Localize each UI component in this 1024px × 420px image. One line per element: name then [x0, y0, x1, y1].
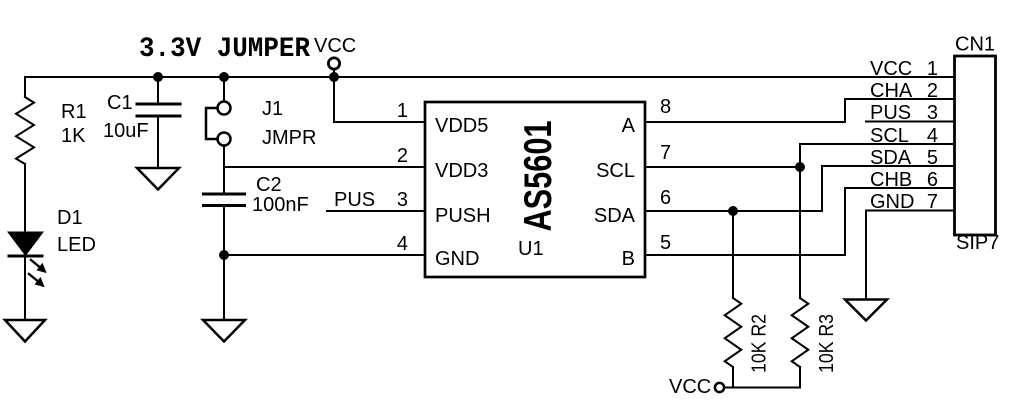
svg-text:4: 4	[927, 125, 938, 147]
capacitor C1	[137, 104, 180, 116]
wire C1 to ground	[157, 118, 159, 169]
svg-text:VDD5: VDD5	[435, 115, 488, 137]
svg-text:1K: 1K	[61, 125, 86, 147]
svg-text:JMPR: JMPR	[262, 127, 316, 149]
svg-text:SDA: SDA	[870, 147, 912, 169]
svg-text:GND: GND	[870, 191, 914, 213]
svg-text:PUSH: PUSH	[435, 205, 491, 227]
wire VDD3 (J1 to pin 2)	[224, 166, 424, 168]
svg-text:A: A	[622, 115, 636, 137]
resistor R3	[792, 298, 809, 367]
svg-text:3: 3	[397, 189, 408, 211]
svg-text:C1: C1	[107, 92, 133, 114]
svg-text:2: 2	[927, 80, 938, 102]
svg-text:100nF: 100nF	[252, 194, 309, 216]
svg-text:B: B	[622, 248, 635, 270]
svg-text:U1: U1	[518, 238, 544, 260]
resistor R1	[16, 97, 34, 164]
wire R3 bottom	[799, 367, 801, 388]
power VCC terminal bottom	[715, 383, 724, 392]
svg-text:C2: C2	[256, 174, 282, 196]
wire SCL net	[645, 144, 953, 167]
svg-text:7: 7	[660, 142, 671, 164]
ground (below C2)	[203, 320, 245, 342]
svg-text:VCC: VCC	[870, 58, 912, 80]
op-amp/IC box U1	[425, 102, 645, 277]
wire J1 to C2	[223, 146, 225, 195]
svg-text:VCC: VCC	[314, 35, 356, 57]
junction at VCC	[329, 72, 339, 82]
svg-text:3.3V JUMPER: 3.3V JUMPER	[139, 34, 310, 65]
svg-text:J1: J1	[262, 98, 283, 120]
wire bottom VCC rail	[725, 387, 800, 389]
wire D1 to ground	[24, 257, 26, 320]
svg-text:4: 4	[397, 233, 408, 255]
wire SDA net	[645, 166, 953, 211]
svg-text:SIP7: SIP7	[956, 232, 999, 254]
svg-text:PUS: PUS	[870, 102, 911, 124]
wire VCC to pin 1	[334, 78, 424, 122]
svg-text:LED: LED	[57, 234, 96, 256]
svg-text:D1: D1	[57, 207, 83, 229]
wire PUS stub (pin 3)	[327, 210, 424, 212]
svg-text:GND: GND	[435, 248, 479, 270]
wire R1 to D1	[24, 164, 26, 232]
ground (below D1)	[5, 320, 45, 342]
wire PUS stub (CN1 pin 3)	[866, 121, 953, 123]
wire VCC rail	[25, 76, 953, 78]
svg-text:SCL: SCL	[596, 160, 635, 182]
svg-text:5: 5	[927, 147, 938, 169]
svg-text:2: 2	[397, 145, 408, 167]
svg-text:PUS: PUS	[334, 189, 375, 211]
wire R2 bottom	[732, 367, 734, 388]
svg-text:CN1: CN1	[955, 34, 995, 56]
junction at C2/GND	[219, 250, 229, 260]
connector CN1 box	[955, 56, 996, 235]
wire rail to C1	[157, 77, 159, 103]
wire GND from CN1	[866, 211, 953, 300]
svg-text:5: 5	[660, 232, 671, 254]
wire rail to J1	[223, 78, 225, 102]
svg-text:6: 6	[927, 169, 938, 191]
svg-text:6: 6	[660, 187, 671, 209]
svg-text:AS5601: AS5601	[517, 121, 560, 232]
ground (below CN1)	[845, 300, 887, 321]
junction SCL/R3	[795, 162, 805, 172]
svg-text:VCC: VCC	[669, 376, 711, 398]
svg-text:R1: R1	[61, 101, 87, 123]
wire B to CHB	[645, 188, 953, 255]
junction at C1	[153, 72, 163, 82]
svg-text:10uF: 10uF	[103, 120, 149, 142]
capacitor C2	[204, 194, 245, 206]
wire R2 drop from SDA	[732, 211, 734, 298]
svg-text:10K R2: 10K R2	[749, 314, 771, 373]
svg-text:10K R3: 10K R3	[816, 314, 838, 373]
wire R3 drop from SCL	[799, 167, 801, 298]
svg-text:3: 3	[927, 102, 938, 124]
svg-text:CHA: CHA	[870, 80, 913, 102]
ground (below C1)	[137, 168, 179, 190]
power VCC terminal top	[328, 58, 339, 78]
svg-text:SDA: SDA	[594, 205, 636, 227]
wire rail to R1	[24, 77, 26, 97]
svg-text:7: 7	[927, 191, 938, 213]
resistor R2	[725, 298, 742, 367]
wire A to CHA	[645, 99, 953, 122]
svg-text:SCL: SCL	[870, 125, 909, 147]
svg-text:VDD3: VDD3	[435, 160, 488, 182]
svg-text:8: 8	[660, 96, 671, 118]
junction at J1	[219, 72, 229, 82]
wire GND (to pin 4)	[224, 254, 424, 256]
svg-text:1: 1	[927, 58, 938, 80]
diode D1 LED	[9, 233, 47, 288]
jumper J1	[206, 102, 231, 146]
svg-text:CHB: CHB	[870, 169, 912, 191]
svg-text:1: 1	[397, 100, 408, 122]
junction SDA/R2	[728, 206, 738, 216]
wire C2 to ground	[223, 207, 225, 320]
